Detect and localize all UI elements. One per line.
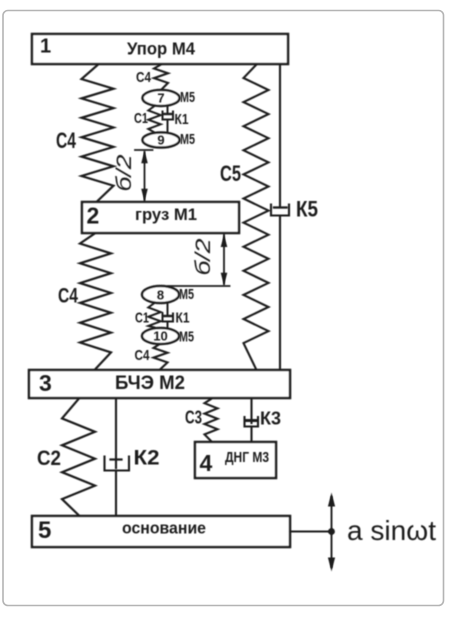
svg-text:С2: С2 xyxy=(37,447,61,470)
spring C3 xyxy=(205,399,218,441)
svg-text:5: 5 xyxy=(38,517,51,544)
mass 7 ellipse xyxy=(143,90,180,106)
wire: damper K1 upper rod lower xyxy=(167,120,169,134)
svg-text:С4: С4 xyxy=(136,69,152,86)
wire: damper K1 mid rod xyxy=(167,302,169,316)
dimension arrow b/2 mid shaft xyxy=(223,235,225,284)
svg-text:М5: М5 xyxy=(179,286,194,303)
damper K2 piston xyxy=(111,458,122,460)
arrowhead up excitation xyxy=(328,493,335,507)
svg-text:К2: К2 xyxy=(134,447,160,470)
mass box 2 xyxy=(82,202,239,233)
svg-text:7: 7 xyxy=(157,91,164,106)
spring C4 small lower xyxy=(154,344,168,370)
arrowhead b/2 mid bottom xyxy=(221,273,228,286)
svg-text:3: 3 xyxy=(39,370,52,396)
damper K3 piston xyxy=(247,419,257,422)
tick under mass 9 xyxy=(135,149,153,151)
svg-text:С4: С4 xyxy=(135,347,151,364)
damper K5 cup xyxy=(271,205,289,216)
wire: damper K1 mid rod lower xyxy=(167,322,169,330)
svg-text:С3: С3 xyxy=(185,408,202,428)
mass 8 ellipse xyxy=(142,286,179,303)
mass box 1 xyxy=(32,34,288,64)
svg-text:К3: К3 xyxy=(260,409,281,429)
svg-text:10: 10 xyxy=(153,329,167,344)
wire: damper K1 upper rod xyxy=(167,105,169,114)
spring C4 lower-left xyxy=(80,233,111,369)
svg-text:К5: К5 xyxy=(296,197,318,222)
svg-text:б/2: б/2 xyxy=(192,238,215,275)
svg-text:С4: С4 xyxy=(58,285,78,308)
svg-text:1: 1 xyxy=(40,36,51,58)
damper K1 mid piston xyxy=(164,315,173,317)
svg-text:С1: С1 xyxy=(135,310,149,327)
svg-text:основание: основание xyxy=(122,519,206,538)
arrowhead down excitation xyxy=(328,558,335,572)
dimension arrow b/2 upper shaft xyxy=(144,152,146,200)
svg-text:Упор М4: Упор М4 xyxy=(127,39,195,59)
svg-text:БЧЭ М2: БЧЭ М2 xyxy=(115,372,185,394)
wire: damper K3 rod upper xyxy=(250,398,252,423)
damper K3 cup xyxy=(245,417,259,427)
node: excitation point xyxy=(328,528,335,535)
svg-text:М5: М5 xyxy=(180,89,195,106)
dimension line at mass 8 top xyxy=(168,285,230,287)
spring C4 upper-left xyxy=(82,65,114,201)
damper K2 cup xyxy=(105,457,130,471)
mass 9 ellipse xyxy=(143,133,180,148)
svg-text:9: 9 xyxy=(157,133,164,148)
mass box 4 xyxy=(195,442,276,478)
wire: right damper rod upper xyxy=(279,64,281,207)
svg-text:М5: М5 xyxy=(179,329,194,346)
wire: right damper rod lower xyxy=(279,216,281,371)
spring C4 small top xyxy=(154,65,168,91)
damper K1 mid cup xyxy=(163,314,174,322)
mass 10 ellipse xyxy=(142,328,179,344)
damper K5 piston xyxy=(274,206,287,208)
mass box 3 xyxy=(29,370,290,398)
svg-text:С4: С4 xyxy=(56,128,77,153)
arrowhead b/2 upper top xyxy=(141,151,148,164)
svg-text:8: 8 xyxy=(157,288,164,303)
arrowhead b/2 upper bottom xyxy=(141,189,148,202)
svg-text:С1: С1 xyxy=(134,110,148,127)
svg-text:2: 2 xyxy=(87,203,100,229)
damper K1 upper piston xyxy=(164,113,173,115)
spring C5 xyxy=(244,65,269,369)
wire: base excitation line xyxy=(290,530,330,532)
wire: damper K2 rod upper xyxy=(115,398,117,468)
excitation arrow shaft xyxy=(331,497,333,567)
spring C1 mid xyxy=(148,303,160,328)
svg-text:б/2: б/2 xyxy=(113,154,136,191)
svg-text:ДНГ М3: ДНГ М3 xyxy=(225,450,269,466)
svg-text:К1: К1 xyxy=(175,111,189,128)
spring C1 upper xyxy=(148,106,160,133)
arrowhead b/2 mid top xyxy=(221,235,228,248)
spring C2 xyxy=(62,399,95,515)
svg-text:груз М1: груз М1 xyxy=(135,206,197,224)
svg-text:a sinωt: a sinωt xyxy=(347,515,436,546)
svg-text:4: 4 xyxy=(200,450,213,476)
svg-text:К1: К1 xyxy=(176,310,190,327)
svg-text:С5: С5 xyxy=(220,161,241,186)
svg-text:М5: М5 xyxy=(180,131,195,148)
wire: damper K3 rod lower xyxy=(250,427,252,443)
wire: damper K2 rod lower xyxy=(115,471,117,517)
mass box 5 xyxy=(32,516,290,547)
damper K1 upper cup xyxy=(163,112,174,120)
